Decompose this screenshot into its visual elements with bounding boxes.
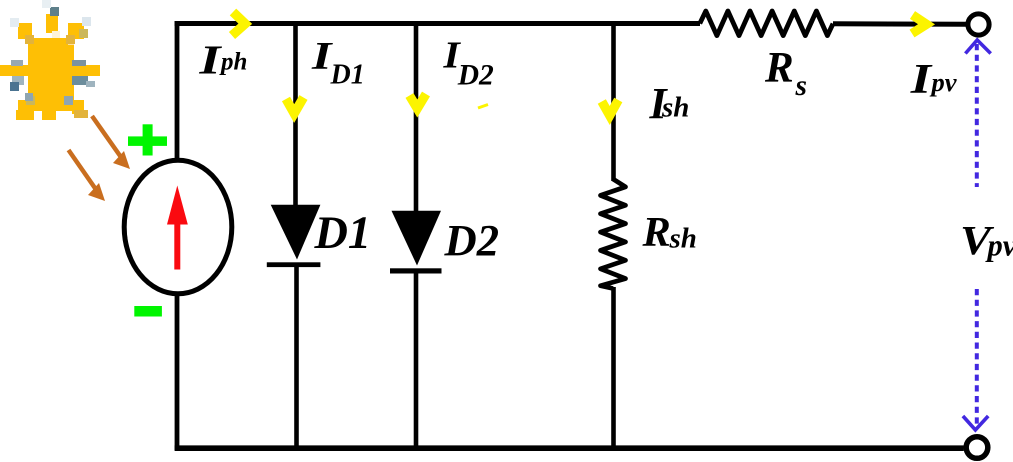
svg-text:D2: D2: [444, 215, 500, 265]
svg-text:pv: pv: [930, 67, 957, 97]
svg-text:s: s: [795, 70, 807, 102]
svg-text:D1: D1: [314, 208, 372, 259]
svg-text:ph: ph: [219, 49, 247, 76]
svg-text:pv: pv: [985, 229, 1013, 263]
svg-text:sh: sh: [661, 92, 689, 124]
svg-text:I: I: [198, 37, 223, 83]
svg-text:R: R: [642, 209, 671, 256]
svg-text:D2: D2: [457, 59, 494, 91]
svg-text:I: I: [910, 56, 933, 103]
svg-text:sh: sh: [669, 223, 697, 255]
svg-text:R: R: [764, 44, 794, 91]
svg-text:D1: D1: [330, 59, 365, 90]
